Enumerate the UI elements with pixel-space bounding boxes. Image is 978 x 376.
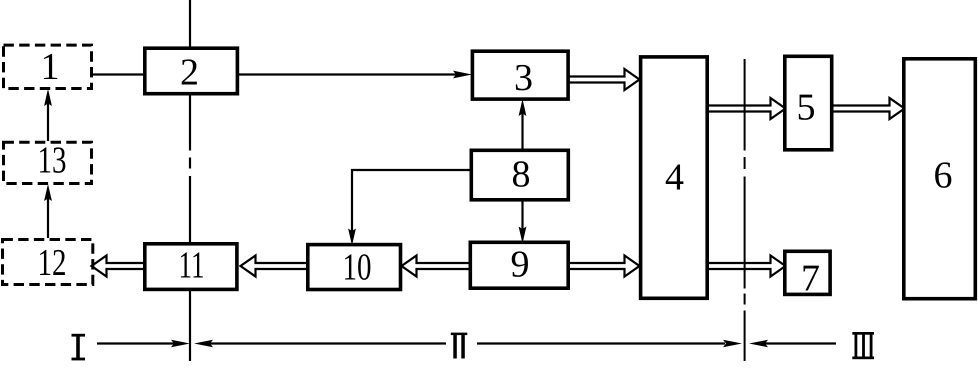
svg-text:12: 12 bbox=[38, 242, 67, 284]
label II (roman numeral) bbox=[451, 333, 468, 359]
box 9 bbox=[470, 242, 568, 288]
hollow arrow 9 to 10 bbox=[402, 256, 471, 277]
svg-text:13: 13 bbox=[38, 140, 67, 182]
svg-text:4: 4 bbox=[665, 157, 684, 199]
wire 8 to 10 elbow bbox=[348, 170, 470, 246]
hollow arrow 4 to 5 bbox=[707, 98, 786, 119]
dimension line section II bbox=[194, 340, 742, 347]
svg-text:2: 2 bbox=[180, 52, 199, 94]
box 2 bbox=[145, 48, 238, 93]
box 5 bbox=[785, 56, 832, 150]
box 11 bbox=[145, 244, 237, 290]
hollow arrow 11 to 12 bbox=[92, 256, 145, 277]
svg-text:9: 9 bbox=[511, 244, 530, 286]
wire below box 11 bbox=[189, 291, 191, 361]
center line II/III boundary (dash-dot) bbox=[744, 59, 746, 361]
arrow 12 to 13 bbox=[44, 184, 52, 238]
box 7 bbox=[785, 251, 830, 299]
label I (roman numeral) bbox=[72, 334, 86, 361]
box 13 (dashed) bbox=[4, 140, 92, 184]
label III (roman numeral) bbox=[852, 332, 874, 359]
svg-text:8: 8 bbox=[512, 154, 531, 196]
center line between box2 and box11 (dash-dot) bbox=[189, 95, 191, 244]
svg-text:1: 1 bbox=[41, 46, 60, 88]
arrow 2 to 3 bbox=[238, 71, 472, 79]
svg-text:10: 10 bbox=[343, 247, 372, 289]
box 6 bbox=[904, 59, 976, 299]
hollow arrow 9 to 4 bbox=[568, 256, 640, 277]
box 12 (dashed) bbox=[3, 240, 93, 285]
box 1 (dashed) bbox=[4, 45, 92, 88]
svg-text:11: 11 bbox=[179, 245, 205, 287]
wire top vertical into box 2 bbox=[189, 0, 191, 48]
arrow 8 to 3 bbox=[519, 99, 527, 149]
arrow 8 to 9 bbox=[519, 201, 527, 244]
hollow arrow 4 to 7 bbox=[707, 256, 786, 277]
box 3 bbox=[472, 51, 568, 99]
box 8 bbox=[471, 150, 568, 200]
svg-text:3: 3 bbox=[514, 57, 533, 99]
box 10 bbox=[308, 245, 401, 290]
svg-text:5: 5 bbox=[797, 87, 816, 129]
dimension line section I bbox=[97, 340, 190, 347]
svg-text:6: 6 bbox=[934, 155, 953, 197]
box 4 bbox=[641, 57, 708, 298]
hollow arrow 3 to 4 bbox=[567, 69, 640, 90]
hollow arrow 5 to 6 bbox=[832, 98, 905, 119]
arrow 13 to 1 bbox=[44, 89, 52, 141]
hollow arrow 10 to 11 bbox=[241, 256, 308, 277]
dimension line section III bbox=[749, 340, 836, 347]
wire box1 to box2 bbox=[91, 73, 145, 75]
svg-text:7: 7 bbox=[801, 258, 820, 300]
